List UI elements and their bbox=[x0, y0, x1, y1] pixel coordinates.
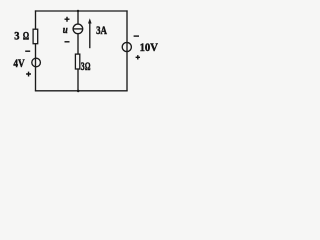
current source bar bbox=[73, 28, 83, 30]
resistor R1 3ohm left bbox=[33, 29, 38, 44]
svg-text:Ω: Ω bbox=[23, 29, 29, 43]
minus of 4V bbox=[25, 50, 30, 52]
svg-text:10V: 10V bbox=[140, 40, 159, 54]
plus of u bbox=[65, 17, 70, 22]
wire right bbox=[126, 10, 128, 91]
voltage source US1 4V bbox=[32, 58, 41, 67]
svg-text:3: 3 bbox=[14, 29, 19, 43]
minus of 10V bbox=[134, 35, 139, 37]
current source IS1 3A bbox=[73, 24, 83, 34]
plus of 10V bbox=[136, 55, 140, 59]
svg-text:u: u bbox=[63, 24, 68, 36]
resistor R2 3ohm middle bbox=[75, 54, 79, 69]
wire left lower bbox=[35, 44, 37, 92]
svg-text:4V: 4V bbox=[13, 56, 25, 70]
voltage source US2 10V bbox=[122, 42, 131, 51]
wire left upper bbox=[35, 10, 37, 29]
wire middle lower bbox=[77, 69, 79, 91]
junction dot bottom bbox=[77, 90, 80, 93]
current arrow 3A line bbox=[89, 22, 91, 48]
svg-text:3A: 3A bbox=[96, 23, 107, 37]
wire middle upper bbox=[77, 11, 79, 24]
current arrow 3A head bbox=[88, 18, 92, 23]
wire middle mid bbox=[77, 34, 79, 54]
wire top bbox=[35, 10, 128, 12]
svg-text:Ω: Ω bbox=[85, 59, 91, 73]
wire bottom bbox=[35, 90, 128, 92]
background bbox=[0, 0, 168, 100]
plus of 4V bbox=[26, 72, 31, 77]
junction dot top bbox=[77, 10, 79, 12]
minus of u bbox=[65, 41, 70, 43]
